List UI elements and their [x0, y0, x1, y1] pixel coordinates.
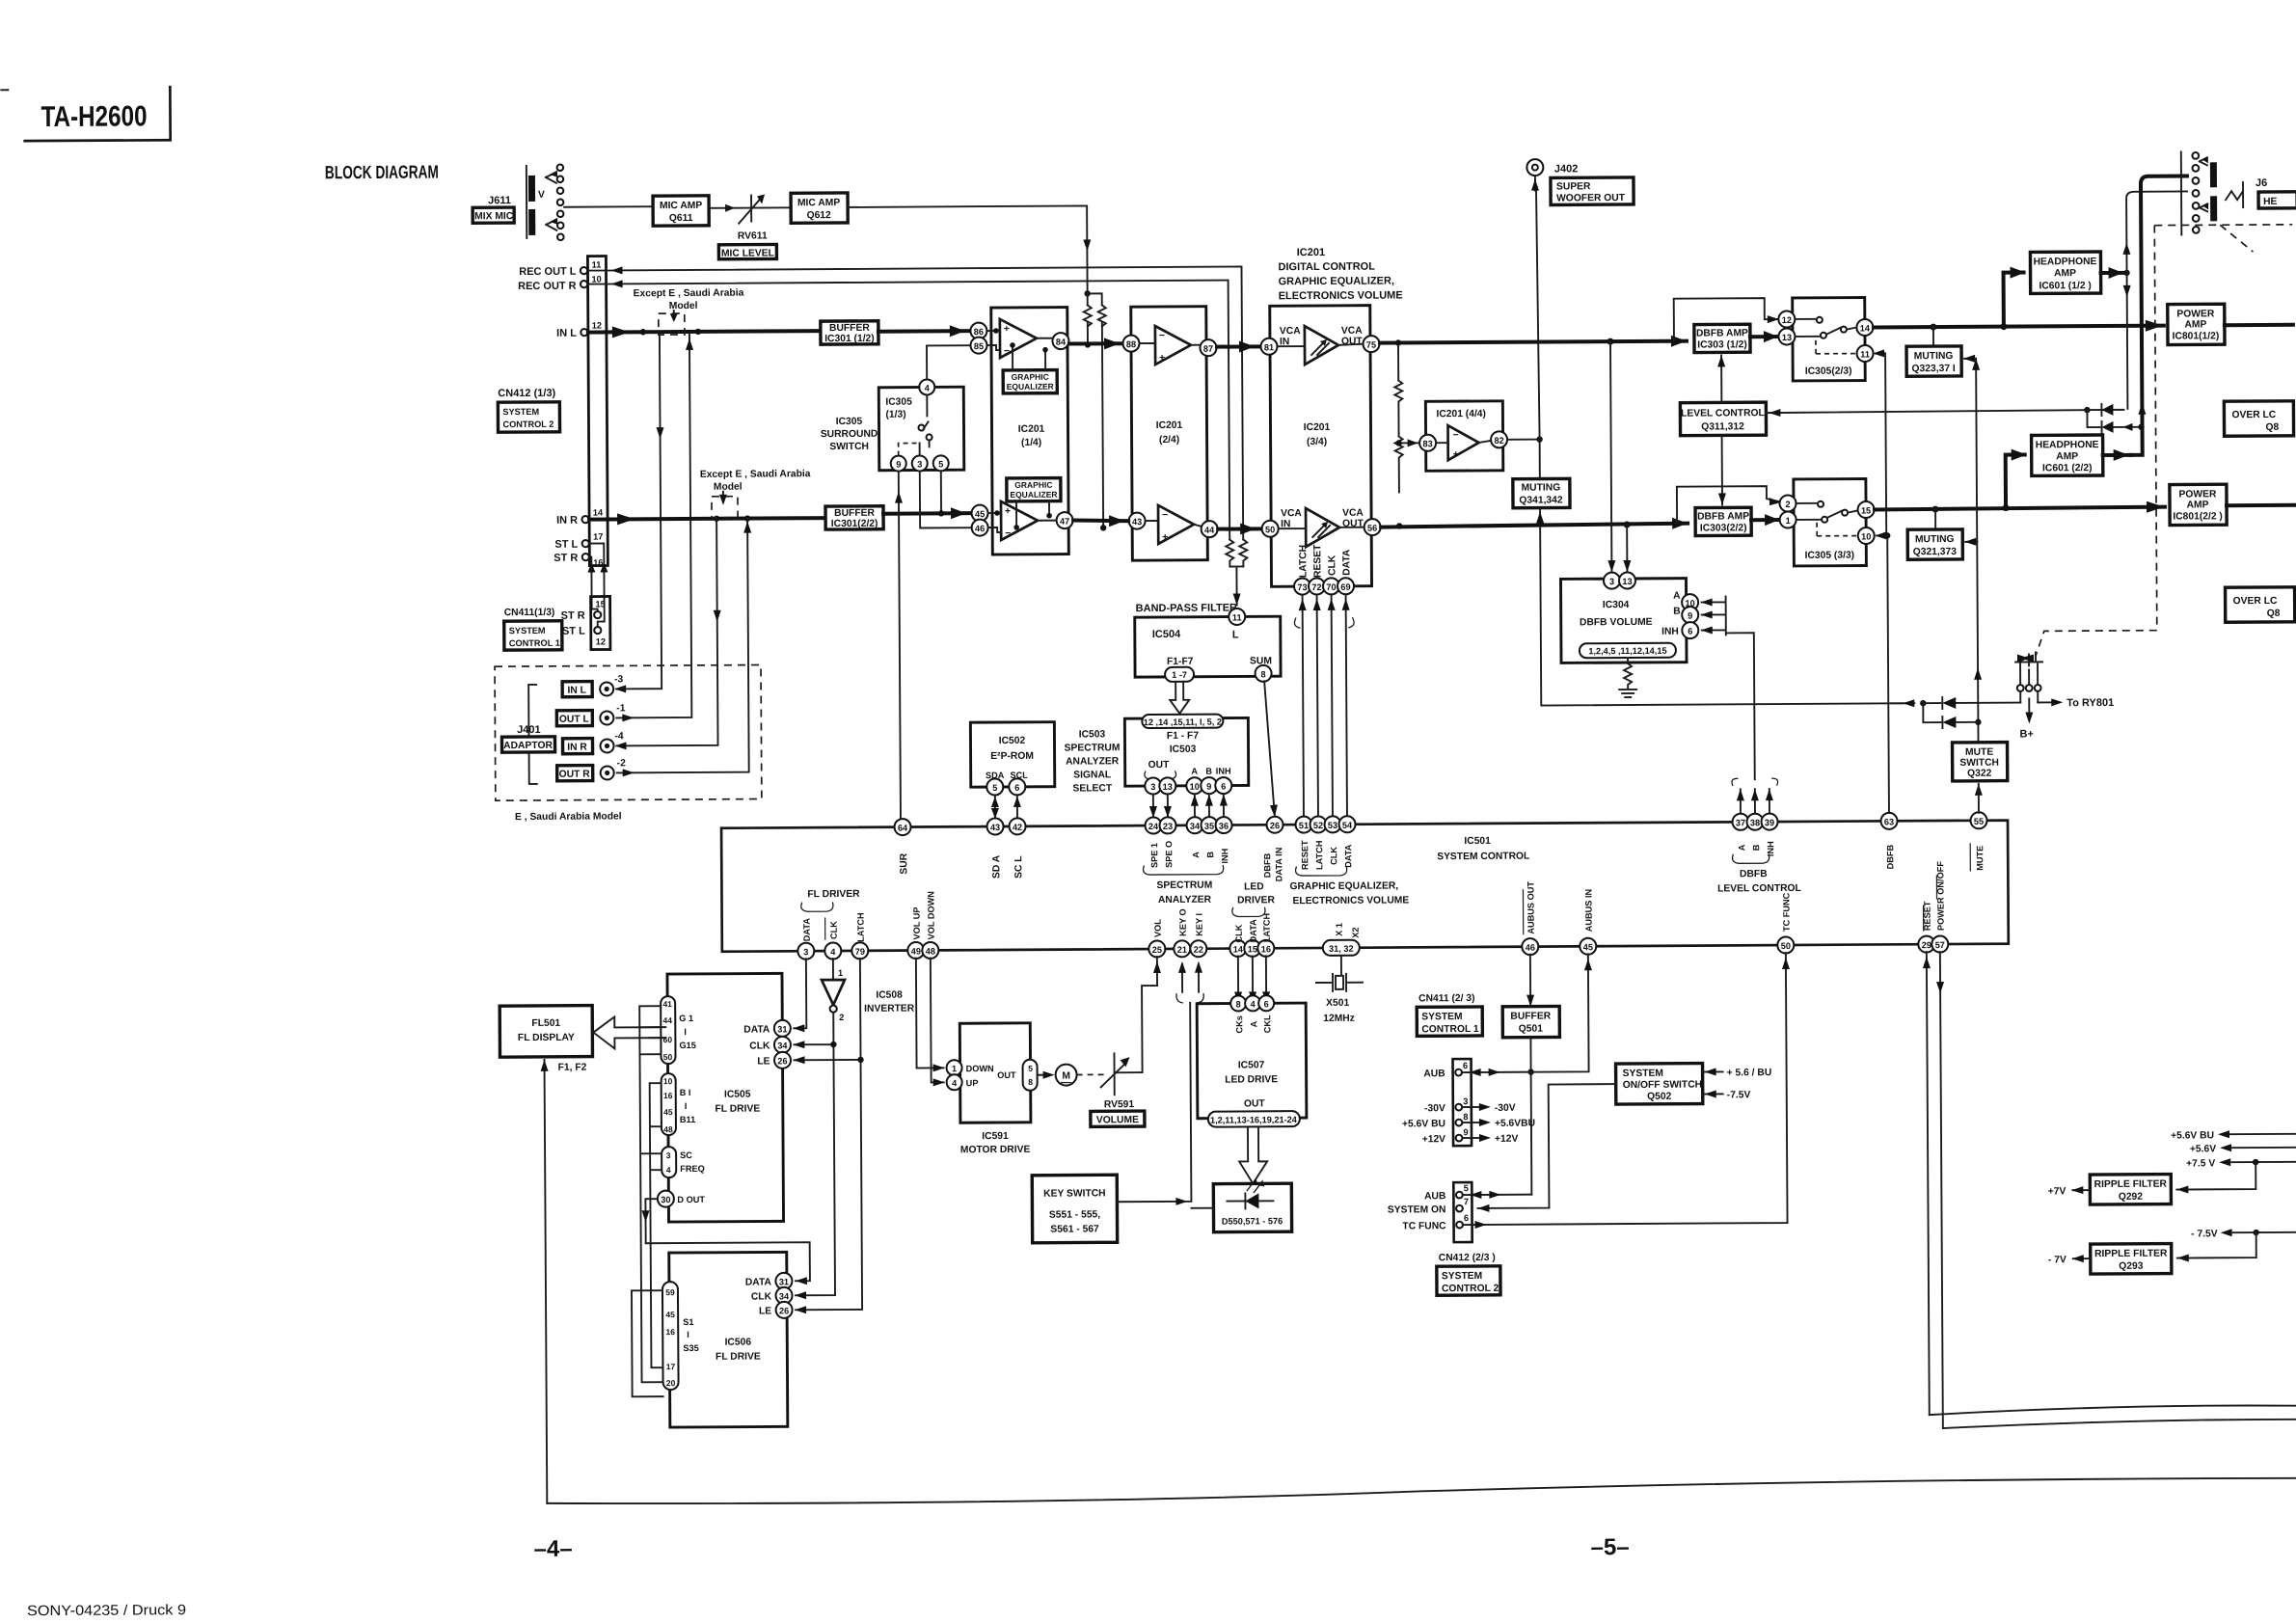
svg-text:-3: -3 [614, 674, 623, 685]
IC305(1/3) pins 4,9,3,5 [890, 379, 949, 471]
IC505 SC FREQ capsule [662, 1147, 705, 1177]
svg-text:50: 50 [1781, 941, 1791, 951]
svg-text:BUFFER: BUFFER [829, 323, 870, 334]
svg-text:1,2,4,5 ,11,12,14,15: 1,2,4,5 ,11,12,14,15 [1588, 646, 1666, 656]
wire J402 riser [1531, 176, 1541, 479]
svg-text:9: 9 [896, 460, 901, 470]
IC201(1/4) pins 45,46,47 [972, 504, 1073, 536]
svg-text:TC FUNC: TC FUNC [1781, 892, 1791, 932]
svg-text:12: 12 [592, 321, 602, 331]
svg-text:79: 79 [855, 947, 865, 957]
wires IC503 pins to bus [1149, 795, 1228, 818]
svg-text:3: 3 [803, 947, 808, 957]
svg-text:REC OUT L: REC OUT L [519, 266, 577, 278]
svg-text:DRIVER: DRIVER [1237, 895, 1276, 906]
svg-text:7: 7 [1464, 1197, 1469, 1206]
title TA-H2600 [1, 87, 170, 141]
svg-text:6: 6 [1463, 1061, 1468, 1070]
op-amp U2b [1146, 505, 1201, 544]
svg-text:OVER LC: OVER LC [2233, 596, 2278, 607]
svg-text:IC801(1/2): IC801(1/2) [2173, 331, 2220, 341]
svg-text:OUT: OUT [1148, 760, 1171, 771]
svg-text:X2: X2 [1351, 927, 1361, 937]
svg-text:B11: B11 [680, 1115, 695, 1124]
svg-text:IC601 (1/2 ): IC601 (1/2 ) [2039, 281, 2091, 291]
mute switch Q322 [1953, 743, 2008, 781]
wires bracket into pins 10,9,6 [1701, 596, 1755, 779]
wire key switch to bus [1116, 961, 1205, 1206]
wire bus DATA to IC505 [793, 959, 806, 1032]
IC304 pins 10,9,6 right [1661, 591, 1699, 639]
svg-text:A: A [1737, 844, 1746, 851]
IC305(2/3) pins 12,13,14,11 [1778, 311, 1873, 363]
svg-text:SELECT: SELECT [1072, 783, 1112, 794]
labels REC OUT / IN / ST [518, 266, 579, 564]
svg-text:1: 1 [952, 1064, 957, 1073]
inverter IC508 [822, 959, 915, 1023]
svg-text:6: 6 [1014, 783, 1019, 793]
svg-text:UP: UP [966, 1078, 979, 1088]
svg-text:GRAPHIC: GRAPHIC [1012, 372, 1049, 382]
svg-text:Q341,342: Q341,342 [1519, 495, 1563, 505]
wires CN411 power rows [1463, 1068, 1536, 1145]
label CN411(1/3) SYSTEM CONTROL 1 [504, 608, 562, 650]
svg-text:-2: -2 [617, 758, 626, 769]
svg-text:IC303(2/2): IC303(2/2) [1700, 523, 1747, 533]
svg-text:11: 11 [592, 260, 602, 270]
fl display FL501 [500, 1006, 592, 1058]
svg-text:48: 48 [663, 1124, 673, 1134]
fl drive IC506 box [669, 1252, 788, 1427]
motor drive IC591 box [946, 1023, 1038, 1156]
svg-text:50: 50 [663, 1052, 673, 1062]
IC201(2/4) pins 43,44 [1129, 512, 1218, 538]
svg-text:A: A [1191, 852, 1201, 858]
svg-text:DATA IN: DATA IN [1274, 847, 1283, 881]
svg-text:DATA: DATA [743, 1024, 770, 1035]
svg-text:VCA: VCA [1280, 326, 1301, 337]
svg-text:OUT: OUT [997, 1070, 1016, 1080]
dashed box J401 adaptor region [495, 665, 762, 801]
svg-text:FL501: FL501 [531, 1018, 560, 1029]
svg-text:IN R: IN R [556, 515, 578, 527]
svg-text:+ 5.6 / BU: + 5.6 / BU [1727, 1068, 1772, 1078]
wire IN R [589, 512, 825, 525]
svg-text:56: 56 [1367, 524, 1377, 533]
svg-text:IC201: IC201 [1156, 420, 1183, 431]
svg-text:E²P-ROM: E²P-ROM [990, 751, 1034, 762]
svg-text:20: 20 [666, 1378, 676, 1388]
svg-text:13: 13 [1622, 577, 1632, 586]
svg-text:29: 29 [1922, 940, 1931, 950]
svg-text:B: B [1205, 767, 1212, 776]
IC505 G pin capsule [661, 996, 696, 1064]
svg-text:F1 - F7: F1 - F7 [1167, 731, 1200, 742]
svg-text:16: 16 [593, 558, 603, 568]
svg-text:85: 85 [974, 341, 984, 351]
svg-text:HEADPHONE: HEADPHONE [2034, 257, 2097, 267]
bottom bus crystal pins 31,32 [1323, 923, 1361, 956]
svg-text:MUTING: MUTING [1522, 482, 1561, 493]
wire 44 to 50 [1218, 523, 1261, 534]
IC505 pin 30 D OUT [658, 1190, 706, 1206]
svg-text:-30V: -30V [1495, 1103, 1516, 1114]
wire Q502 to system on [1477, 1084, 1617, 1208]
svg-text:IN L: IN L [567, 686, 586, 696]
svg-text:88: 88 [1126, 339, 1136, 349]
svg-text:Q323,37 I: Q323,37 I [1912, 364, 1956, 374]
wire LATCH to LE pins [793, 959, 865, 1313]
svg-text:87: 87 [1203, 344, 1213, 354]
IC201(4/4) pins 83,82 [1419, 431, 1507, 451]
wire 84 to 88 [1069, 338, 1123, 349]
svg-text:45: 45 [665, 1310, 675, 1319]
svg-text:IC801(2/2 ): IC801(2/2 ) [2173, 511, 2223, 522]
svg-text:3: 3 [1463, 1096, 1468, 1106]
bus pin 64 SUR [894, 819, 910, 875]
svg-text:37: 37 [1736, 818, 1745, 827]
svg-text:POWER: POWER [2178, 489, 2217, 500]
graphic equalizer box L [1003, 342, 1057, 393]
svg-text:VOL: VOL [1153, 919, 1163, 937]
bus pin 63 DBFB [1880, 813, 1897, 870]
svg-text:RIPPLE FILTER: RIPPLE FILTER [2094, 1249, 2168, 1259]
svg-text:46: 46 [1526, 943, 1535, 953]
svg-text:INH: INH [1220, 848, 1229, 863]
svg-text:17: 17 [666, 1362, 676, 1371]
svg-text:26: 26 [777, 1056, 787, 1066]
wire SUM to bus pin 26 [1264, 681, 1278, 817]
crystal X501 [1316, 956, 1363, 1024]
wire Q611 to RV611 [709, 206, 791, 209]
bottom bus pins 29,57 reset power [1918, 861, 1949, 953]
svg-text:Q321,373: Q321,373 [1913, 547, 1958, 557]
note Except E,Saudi Arabia Model (R) [700, 469, 811, 518]
svg-text:VCA: VCA [1281, 508, 1302, 519]
svg-text:INH: INH [1766, 841, 1775, 856]
svg-text:DATA: DATA [802, 918, 812, 942]
svg-text:AMP: AMP [2187, 500, 2209, 510]
diodes and relay to RY801 [1891, 652, 2114, 741]
label J611 / MIX MIC [473, 195, 514, 223]
svg-text:IC503: IC503 [1170, 744, 1197, 755]
wire headphone R to jack riser [2101, 176, 2189, 461]
eeprom IC502 [970, 722, 1054, 796]
wire 87 to 81 [1217, 340, 1260, 352]
wire buffer L out to pin 86 [878, 325, 971, 338]
svg-text:IC304: IC304 [1603, 600, 1630, 610]
svg-text:8: 8 [1260, 669, 1265, 679]
svg-text:75: 75 [1366, 340, 1376, 350]
svg-text:I: I [684, 1027, 687, 1037]
svg-text:26: 26 [1270, 821, 1280, 830]
svg-text:INH: INH [1661, 627, 1679, 637]
svg-text:LED: LED [1244, 881, 1264, 892]
bus pins 24,23,34,35,36 spectrum [1143, 817, 1232, 906]
svg-text:CN411(1/3): CN411(1/3) [504, 608, 555, 618]
svg-text:ST L: ST L [562, 626, 585, 637]
svg-text:B: B [1205, 852, 1215, 858]
svg-text:34: 34 [1190, 822, 1201, 831]
connector CN412(2/3) strip [1388, 1182, 1472, 1243]
svg-text:81: 81 [1264, 342, 1274, 352]
svg-text:DOWN: DOWN [966, 1064, 995, 1073]
svg-text:B: B [1673, 607, 1681, 617]
svg-text:1: 1 [838, 968, 843, 978]
svg-text:Q8: Q8 [2266, 422, 2280, 433]
svg-text:73: 73 [1297, 582, 1307, 592]
IC505 pins DATA CLK LE [743, 1020, 791, 1068]
svg-text:13: 13 [1782, 333, 1792, 342]
svg-text:IC301(2/2): IC301(2/2) [831, 519, 878, 529]
svg-text:5: 5 [992, 783, 997, 793]
svg-text:3: 3 [1609, 577, 1614, 586]
svg-text:IC305 (3/3): IC305 (3/3) [1805, 551, 1855, 561]
svg-text:5: 5 [1028, 1064, 1033, 1073]
svg-text:+5.6V BU: +5.6V BU [1402, 1119, 1445, 1129]
svg-text:IC601 (2/2): IC601 (2/2) [2042, 463, 2093, 473]
level control Q311,312 [1680, 402, 1766, 436]
svg-text:S35: S35 [683, 1343, 698, 1353]
svg-text:SUR: SUR [899, 852, 909, 874]
label IC201 (3/4) [1304, 422, 1331, 447]
svg-text:43: 43 [990, 823, 1000, 832]
muting Q341,342 [1513, 478, 1570, 507]
bus pin 55 MUTE [1970, 784, 1987, 871]
svg-text:10: 10 [591, 275, 601, 284]
svg-text:MIC AMP: MIC AMP [660, 201, 702, 211]
svg-text:Q612: Q612 [807, 210, 832, 221]
power rail -7.5V [2191, 1229, 2296, 1240]
jack IN R (-4) [562, 731, 624, 753]
svg-text:IC201: IC201 [1018, 424, 1045, 435]
graphic equalizer box R [1007, 478, 1061, 530]
svg-text:CN412 (1/3): CN412 (1/3) [498, 388, 555, 399]
svg-text:OUT R: OUT R [559, 770, 591, 780]
wire CLK to IC505 and IC506 [793, 1013, 838, 1299]
headphone jack J601 [2181, 151, 2296, 235]
svg-text:FL DRIVE: FL DRIVE [715, 1104, 760, 1115]
svg-text:CLK: CLK [1234, 924, 1244, 942]
svg-text:CONTROL 2: CONTROL 2 [1442, 1284, 1499, 1294]
bottom bus pins 3,4,79 FL driver [797, 889, 868, 960]
wires CN412 rows [1462, 953, 1792, 1229]
svg-text:E , Saudi Arabia Model: E , Saudi Arabia Model [515, 811, 622, 823]
svg-text:–5–: –5– [1591, 1534, 1630, 1560]
svg-text:DATA: DATA [1343, 844, 1353, 868]
svg-text:6: 6 [1264, 999, 1269, 1009]
svg-text:8: 8 [1236, 999, 1241, 1009]
svg-text:RV611: RV611 [738, 230, 768, 241]
svg-text:To RY801: To RY801 [2066, 697, 2114, 709]
wire F1,F2 riser [541, 1060, 590, 1503]
wires L/R taps into IC304 [1607, 341, 1631, 572]
svg-text:50: 50 [1265, 525, 1275, 534]
svg-text:46: 46 [975, 524, 985, 533]
svg-text:F1-F7: F1-F7 [1167, 657, 1194, 667]
svg-text:SYSTEM: SYSTEM [1442, 1271, 1482, 1282]
svg-text:ELECTRONICS VOLUME: ELECTRONICS VOLUME [1292, 895, 1409, 906]
svg-text:+12V: +12V [1422, 1134, 1446, 1145]
svg-text:51: 51 [1299, 821, 1309, 830]
svg-text:53: 53 [1328, 821, 1337, 830]
svg-text:SWITCH: SWITCH [1959, 758, 1999, 769]
resistor and ground under IC304 [1619, 658, 1636, 697]
wires reset/power risers [1923, 950, 2296, 1428]
svg-text:ANALYZER: ANALYZER [1066, 756, 1120, 767]
dbfb level control pins riser [1732, 778, 1778, 814]
svg-text:CN412 (2/3 ): CN412 (2/3 ) [1439, 1253, 1496, 1263]
svg-text:(1/3): (1/3) [885, 410, 905, 420]
wire vol up/down to motor drive [916, 958, 945, 1086]
svg-text:−: − [1159, 331, 1165, 341]
svg-text:ADAPTOR: ADAPTOR [503, 741, 553, 751]
svg-text:SUPER: SUPER [1556, 181, 1591, 192]
svg-text:CONTROL 1: CONTROL 1 [509, 638, 560, 648]
svg-text:–4–: –4– [534, 1536, 573, 1562]
svg-text:36: 36 [1219, 822, 1229, 831]
svg-text:44: 44 [662, 1015, 672, 1025]
svg-text:KEY O: KEY O [1178, 908, 1188, 935]
IC201(2/4) box [1131, 307, 1208, 560]
ripple filter Q293 [2048, 1232, 2256, 1274]
svg-text:AMP: AMP [2184, 319, 2206, 330]
svg-text:INH: INH [1216, 767, 1231, 776]
svg-text:SC L: SC L [1013, 855, 1024, 879]
svg-text:OUT: OUT [1244, 1098, 1266, 1109]
svg-text:BLOCK DIAGRAM: BLOCK DIAGRAM [325, 163, 439, 184]
IC201(3/4) pins 81,75 [1260, 326, 1379, 355]
jack OUT R (-2) [557, 758, 627, 780]
svg-text:KEY SWITCH: KEY SWITCH [1043, 1188, 1106, 1199]
svg-text:15: 15 [595, 599, 605, 609]
label SUPER WOOFER OUT [1551, 177, 1634, 205]
IC304 pin capsule 1,2,4,5,11,12,14,15 [1580, 643, 1676, 659]
svg-text:IC508: IC508 [876, 990, 903, 1001]
svg-text:−: − [1162, 510, 1168, 521]
svg-text:Q8: Q8 [2267, 609, 2281, 619]
label CN412(2/3) SYSTEM CONTROL 2 [1437, 1253, 1500, 1295]
IC201(1/4) pins 86,85,84 [970, 322, 1068, 354]
jack IN L (-3) [562, 674, 624, 696]
svg-text:- 7V: - 7V [2048, 1255, 2066, 1265]
svg-text:X501: X501 [1326, 998, 1349, 1009]
svg-text:42: 42 [1013, 823, 1022, 832]
svg-text:DATA: DATA [745, 1277, 772, 1287]
svg-text:IC301 (1/2): IC301 (1/2) [824, 334, 875, 344]
resistor divider to 83 [1394, 339, 1418, 529]
svg-text:4: 4 [666, 1165, 671, 1175]
IC305(1/3) switch contacts [898, 394, 932, 455]
svg-text:BUFFER: BUFFER [1510, 1012, 1551, 1022]
potentiometer RV611 [738, 194, 768, 241]
svg-text:+5.6VBU: +5.6VBU [1495, 1119, 1535, 1129]
svg-text:FL DRIVER: FL DRIVER [807, 889, 860, 900]
svg-text:FREQ: FREQ [680, 1164, 705, 1174]
wire pin5 to R line [938, 471, 945, 516]
IC506 S pin capsule [662, 1282, 699, 1390]
bus pins 51,52,53,54 [1289, 816, 1409, 906]
svg-text:V: V [538, 190, 545, 201]
svg-text:48: 48 [926, 946, 935, 956]
svg-text:SYSTEM CONTROL: SYSTEM CONTROL [1437, 852, 1529, 863]
svg-text:Q322: Q322 [1967, 769, 1992, 779]
svg-text:HEADPHONE: HEADPHONE [2036, 440, 2099, 450]
IC201(3/4) bottom pins 73,72,70,69 [1294, 544, 1354, 595]
wire SUR pin9 to bus [895, 472, 905, 820]
svg-text:38: 38 [1750, 818, 1760, 827]
svg-text:83: 83 [1422, 439, 1432, 448]
svg-text:DBFB AMP: DBFB AMP [1697, 511, 1749, 522]
svg-text:POWER: POWER [2176, 309, 2215, 319]
wire tap to J401 IN R [613, 519, 721, 750]
svg-text:10: 10 [1861, 531, 1871, 541]
op-amp U1a [987, 319, 1052, 358]
svg-text:SYSTEM: SYSTEM [1623, 1068, 1663, 1079]
svg-text:J402: J402 [1554, 163, 1579, 175]
IC201(3/4) box [1270, 306, 1372, 587]
svg-text:TC FUNC: TC FUNC [1402, 1221, 1446, 1231]
svg-text:+5.6V: +5.6V [2190, 1144, 2216, 1154]
svg-text:3: 3 [666, 1150, 671, 1160]
over load box 1 [2224, 401, 2293, 436]
bottom bus pin 50 tc func [1777, 892, 1794, 953]
op-amp U4 [1437, 425, 1492, 460]
wire loop to pin 12 [1674, 298, 1779, 341]
svg-text:D OUT: D OUT [677, 1195, 705, 1204]
svg-text:SD A: SD A [991, 854, 1002, 879]
summing resistors to band-pass filter [1226, 539, 1247, 605]
label J401 ADAPTOR [501, 724, 554, 752]
svg-text:1,2,11,13-16,19,21-24: 1,2,11,13-16,19,21-24 [1210, 1115, 1298, 1125]
svg-text:31, 32: 31, 32 [1329, 944, 1354, 954]
svg-text:M: M [1062, 1071, 1070, 1082]
svg-text:ST R: ST R [561, 610, 585, 622]
key switch box [1032, 1175, 1117, 1243]
switch IC305(3/3) box [1794, 479, 1867, 566]
wire REC OUT R [588, 277, 1230, 544]
svg-text:(1/4): (1/4) [1021, 438, 1041, 448]
muting Q321,373 [1907, 509, 1962, 559]
svg-text:(2/4): (2/4) [1159, 435, 1179, 446]
svg-text:DBFB: DBFB [1885, 844, 1895, 869]
svg-text:IC305: IC305 [836, 417, 863, 427]
svg-text:CLK: CLK [829, 921, 839, 939]
svg-text:8: 8 [1463, 1112, 1468, 1122]
bus pin 26 DBFB DATA IN [1262, 817, 1283, 882]
wire D OUT to IC506 DATA [641, 1198, 810, 1285]
svg-text:Q311,312: Q311,312 [1701, 421, 1744, 432]
svg-text:8: 8 [1028, 1077, 1033, 1087]
svg-text:82: 82 [1494, 436, 1503, 446]
svg-text:REC OUT R: REC OUT R [518, 281, 577, 292]
svg-text:IC201 (4/4): IC201 (4/4) [1436, 409, 1486, 419]
svg-text:DBFB VOLUME: DBFB VOLUME [1580, 617, 1653, 628]
svg-text:DBFB AMP: DBFB AMP [1696, 328, 1748, 338]
svg-text:Q501: Q501 [1519, 1024, 1544, 1035]
IC305(3/3) pins 2,1,15,10 [1779, 495, 1874, 545]
svg-text:B: B [1751, 844, 1761, 851]
op-amp U2a [1140, 326, 1200, 365]
svg-text:CKs: CKs [1234, 1015, 1244, 1033]
led drive IC507 box [1197, 995, 1307, 1127]
mix resistor R to R channel [1088, 293, 1108, 530]
svg-text:ANALYZER: ANALYZER [1158, 895, 1212, 906]
IC201(2/4) pins 88,87 [1122, 335, 1216, 357]
wire L out 75 [1380, 336, 1687, 349]
svg-text:13: 13 [1163, 782, 1173, 792]
svg-text:INVERTER: INVERTER [864, 1004, 915, 1014]
